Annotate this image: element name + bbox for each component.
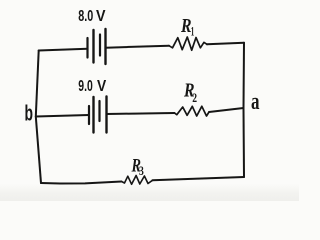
svg-text:1: 1 — [191, 24, 195, 39]
wire left vertical — [36, 51, 41, 184]
svg-text:b: b — [25, 101, 34, 126]
label 8.0 V — [78, 8, 105, 25]
wire right vertical — [243, 43, 246, 177]
wire top-left horizontal (corner to battery B1) — [39, 49, 88, 51]
resistor R3 — [122, 176, 153, 185]
svg-text:2: 2 — [192, 90, 197, 105]
label 9.0 V — [78, 78, 106, 95]
wire bottom (right corner to R3) — [153, 177, 245, 180]
svg-text:V: V — [96, 8, 106, 25]
resistor R2 — [175, 106, 210, 116]
svg-text:a: a — [251, 89, 260, 115]
wire middle-left (node b to battery B2) — [36, 115, 89, 117]
label R3 — [131, 157, 144, 178]
svg-text:3: 3 — [139, 164, 144, 178]
wire bottom (left corner to R3) — [41, 182, 122, 184]
wire battery B1 to R1 — [106, 46, 170, 48]
resistor R1 — [169, 37, 207, 50]
svg-text:V: V — [97, 78, 106, 95]
label R1 — [180, 15, 194, 39]
svg-text:8.0: 8.0 — [78, 8, 93, 25]
battery B1 (8.0 V source) — [88, 29, 106, 64]
wire R1 to top-right corner — [207, 43, 244, 45]
wire battery B2 to R2 — [107, 113, 175, 114]
label R2 — [183, 80, 197, 106]
battery B2 (9.0 V source) — [89, 97, 107, 133]
svg-text:9.0: 9.0 — [78, 78, 93, 95]
wire R2 to node a — [209, 108, 244, 112]
paper background — [0, 0, 299, 201]
